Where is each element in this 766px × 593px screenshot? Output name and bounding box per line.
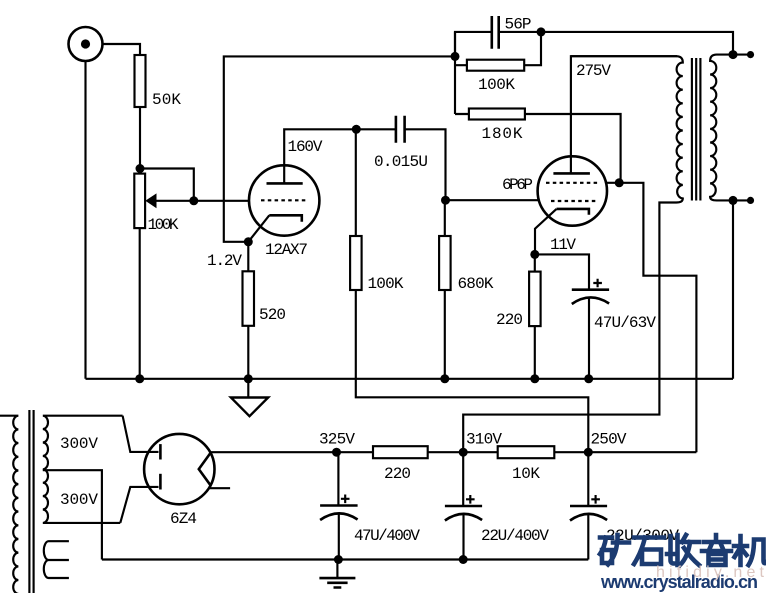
- node wiper junction: [189, 196, 198, 205]
- power transformer filament winding: [44, 541, 69, 578]
- tube U2 6P6P envelope: [538, 156, 607, 225]
- node screen junction: [615, 178, 624, 187]
- resistor 220 filter: [373, 446, 428, 458]
- 6Z4 cathode chevron: [199, 452, 211, 485]
- 6P6P anode wire to 275V: [571, 56, 677, 173]
- node cathode junction: [244, 237, 253, 246]
- 12AX7 cathode: [269, 215, 302, 222]
- svg-text:325V: 325V: [319, 431, 355, 449]
- wire grid line to 12AX7: [194, 200, 250, 202]
- wire 11V node to cap: [535, 254, 589, 289]
- capacitor C 0.015U: [356, 128, 395, 130]
- input jack J1: [69, 27, 103, 61]
- node feedback/56P left: [451, 52, 460, 61]
- bottom ground bus: [102, 558, 588, 560]
- svg-text:11V: 11V: [550, 236, 576, 254]
- 6P6P cathode: [557, 209, 589, 215]
- char shi: [634, 538, 664, 565]
- wire HV bottom diagonal to 6Z4 plate: [120, 487, 158, 523]
- ground symbol chassis: [247, 379, 249, 398]
- wire grid line to 6P6P: [446, 199, 539, 201]
- char kuang: [600, 535, 629, 565]
- svg-text:180K: 180K: [482, 125, 523, 143]
- svg-text:100K: 100K: [368, 275, 404, 293]
- svg-text:300V: 300V: [60, 435, 98, 453]
- 6Z4 heater stub: [210, 487, 230, 489]
- node 310V: [459, 448, 468, 457]
- capacitor C 47U/63V: [572, 279, 609, 379]
- svg-text:520: 520: [259, 306, 286, 324]
- svg-text:10K: 10K: [512, 465, 540, 483]
- wire 6P6P cathode lead: [535, 209, 557, 255]
- power transformer T1 primary winding: [0, 416, 18, 593]
- 6Z4 plate bottom: [159, 474, 162, 490]
- wire 50K to pot: [139, 107, 141, 174]
- node 47U400-bus: [334, 555, 343, 564]
- 6P6P plate: [553, 172, 590, 175]
- node pot-bus: [135, 374, 144, 383]
- capacitor C 22U/300V: [570, 452, 607, 559]
- node B grid junction: [441, 196, 450, 205]
- node cathode 11V: [530, 250, 539, 259]
- svg-text:0.015U: 0.015U: [374, 153, 428, 171]
- wiper arrowhead: [145, 193, 156, 208]
- resistor Rg 680K: [439, 236, 451, 290]
- wire screen to 250V node: [619, 183, 696, 452]
- node 520-bus: [244, 374, 253, 383]
- node 220-bus: [530, 374, 539, 383]
- potentiometer RP 100K: [134, 174, 145, 229]
- svg-text:6Z4: 6Z4: [170, 510, 197, 528]
- output transformer T2 secondary: [710, 55, 750, 201]
- wire B+ rail 325V: [210, 451, 373, 453]
- svg-text:160V: 160V: [288, 138, 323, 156]
- wire cathode diagonal lead: [248, 215, 269, 242]
- wire 680K leads: [444, 200, 446, 379]
- wire 520 leads: [247, 242, 249, 379]
- output transformer core: [692, 58, 701, 201]
- svg-text:47U/63V: 47U/63V: [594, 314, 656, 332]
- node 680K-bus: [440, 374, 449, 383]
- 6Z4 plate top: [159, 444, 162, 459]
- node 47U63V-bus: [584, 374, 593, 383]
- svg-text:100K: 100K: [148, 216, 179, 234]
- node pot top: [136, 164, 145, 173]
- svg-text:300V: 300V: [60, 491, 98, 509]
- svg-text:1.2V: 1.2V: [207, 252, 242, 270]
- svg-text:100K: 100K: [478, 76, 515, 94]
- wire pot bottom to bus: [139, 228, 141, 379]
- node 56P right: [537, 27, 546, 36]
- resistor R 50K: [135, 55, 146, 107]
- ground bus top section: [86, 378, 734, 380]
- wire 180K leads: [455, 114, 621, 183]
- wire 220 leads: [534, 254, 536, 378]
- wire jack to 50K top: [103, 44, 141, 55]
- tube U1 12AX7 envelope: [249, 165, 319, 235]
- char shou: [667, 535, 699, 565]
- wire HV top diagonal to 6Z4 plate: [123, 416, 159, 452]
- wire 250V segment: [554, 451, 696, 453]
- svg-text:50K: 50K: [152, 91, 181, 109]
- svg-text:275V: 275V: [576, 62, 611, 80]
- tube U3 6Z4 envelope: [144, 434, 214, 504]
- wire secondary bottom to ground bus: [732, 200, 734, 378]
- capacitor C 22U/400V: [445, 452, 482, 559]
- power transformer core: [29, 410, 33, 593]
- 12AX7 plate: [267, 182, 303, 185]
- wire 100K bottom to 250V node: [356, 290, 589, 452]
- svg-text:220: 220: [384, 465, 411, 483]
- wire 100K-h leads: [455, 32, 541, 114]
- wire pot-top branch to wiper: [140, 169, 194, 201]
- capacitor C 56P: [455, 32, 491, 57]
- svg-text:680K: 680K: [458, 275, 494, 293]
- svg-text:47U/400V: 47U/400V: [354, 527, 420, 545]
- wire HV center tap to ground bus: [43, 470, 102, 559]
- node 22U400-bus: [459, 555, 468, 564]
- wire 310V segment: [428, 451, 498, 453]
- 6P6P control grid dashes: [551, 200, 597, 202]
- node A anode/cap junction: [352, 125, 361, 134]
- 6P6P screen grid dashes: [546, 182, 600, 184]
- capacitor C 47U/400V: [320, 452, 358, 559]
- 12AX7 anode wire to node A: [284, 129, 356, 183]
- resistor Rf 100K horizontal: [467, 60, 524, 71]
- svg-text:56P: 56P: [505, 16, 532, 34]
- char yin: [702, 535, 731, 565]
- wire 100K top lead: [355, 129, 357, 236]
- node secondary bottom junction: [729, 196, 738, 205]
- terminal output top: [747, 51, 754, 58]
- svg-text:6P6P: 6P6P: [502, 176, 533, 194]
- svg-text:220: 220: [496, 311, 523, 329]
- watermark: [600, 535, 766, 565]
- svg-text:12AX7: 12AX7: [265, 241, 308, 259]
- node secondary top junction: [729, 50, 738, 59]
- wire jack ground lead: [84, 61, 86, 379]
- wire screen stub: [606, 182, 620, 184]
- power transformer HV secondary winding: [43, 416, 123, 523]
- wire feedback line to 56P node: [224, 56, 455, 241]
- node 250V: [584, 448, 593, 457]
- output transformer T2 primary: [463, 56, 683, 452]
- svg-text:22U/400V: 22U/400V: [481, 527, 549, 545]
- svg-text:250V: 250V: [591, 431, 627, 449]
- earth ground symbol: [336, 560, 338, 579]
- wire 56P node to output terminal: [541, 32, 733, 55]
- resistor 10K filter: [498, 446, 555, 458]
- resistor 180K: [469, 109, 525, 120]
- wire wiper arm: [154, 200, 194, 202]
- char ji: [734, 536, 766, 565]
- terminal output bottom: [747, 197, 754, 204]
- resistor Ra 100K vertical: [350, 236, 362, 290]
- node 325V: [332, 448, 341, 457]
- 12AX7 grid dashes: [261, 199, 307, 201]
- resistor Rk 520: [243, 271, 255, 326]
- resistor Rk2 220: [529, 272, 541, 327]
